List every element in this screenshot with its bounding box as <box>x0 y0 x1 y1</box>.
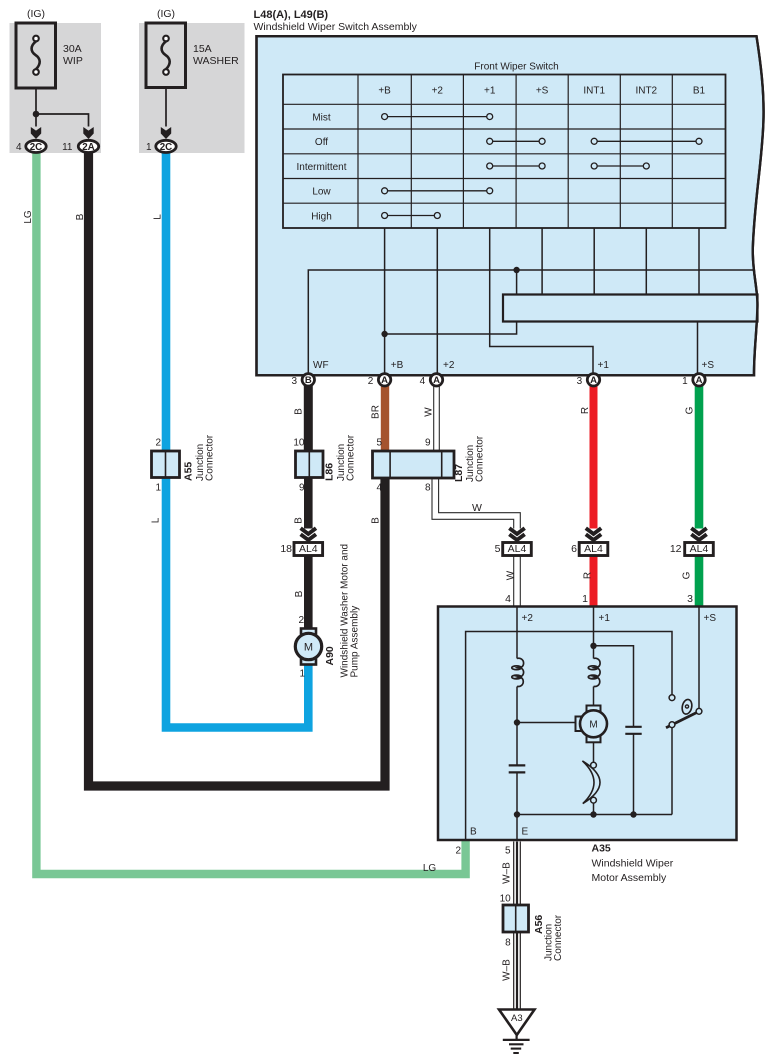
svg-text:Off: Off <box>315 137 328 148</box>
svg-text:Motor Assembly: Motor Assembly <box>592 872 667 884</box>
svg-text:10: 10 <box>293 438 305 449</box>
svg-text:2: 2 <box>368 376 374 387</box>
svg-text:3: 3 <box>291 376 297 387</box>
svg-text:AL4: AL4 <box>690 543 709 555</box>
svg-text:Pump Assembly: Pump Assembly <box>350 606 361 678</box>
svg-text:+1: +1 <box>484 86 496 97</box>
svg-text:+2: +2 <box>432 86 444 97</box>
svg-text:G: G <box>684 406 695 414</box>
svg-text:A55: A55 <box>183 462 195 481</box>
svg-text:W–B: W–B <box>502 959 513 981</box>
svg-text:18: 18 <box>280 543 292 555</box>
svg-text:1: 1 <box>155 483 161 494</box>
svg-text:WF: WF <box>313 360 329 371</box>
svg-text:2: 2 <box>155 438 161 449</box>
svg-text:2: 2 <box>298 615 304 626</box>
svg-text:8: 8 <box>425 483 431 494</box>
svg-text:A: A <box>696 375 703 386</box>
svg-text:AL4: AL4 <box>584 543 603 555</box>
svg-text:+S: +S <box>704 613 717 624</box>
svg-text:4: 4 <box>420 376 426 387</box>
svg-text:WIP: WIP <box>63 55 83 67</box>
svg-text:5: 5 <box>495 543 501 555</box>
svg-text:R: R <box>583 572 594 579</box>
svg-text:9: 9 <box>425 438 431 449</box>
svg-text:+S: +S <box>702 360 715 371</box>
svg-text:A: A <box>590 375 597 386</box>
svg-text:+S: +S <box>536 86 549 97</box>
svg-text:Connector: Connector <box>475 435 486 482</box>
svg-text:A90: A90 <box>324 646 336 665</box>
svg-text:W: W <box>424 407 435 417</box>
svg-text:12: 12 <box>670 543 682 555</box>
svg-text:INT2: INT2 <box>635 86 657 97</box>
svg-text:M: M <box>589 719 597 730</box>
svg-text:11: 11 <box>62 142 73 153</box>
svg-text:2: 2 <box>455 846 461 857</box>
svg-text:+1: +1 <box>599 613 611 624</box>
svg-text:L48(A), L49(B): L48(A), L49(B) <box>254 9 329 21</box>
svg-text:+1: +1 <box>598 360 610 371</box>
svg-text:L: L <box>153 214 164 220</box>
svg-text:A35: A35 <box>592 843 611 855</box>
svg-text:L: L <box>151 517 162 523</box>
svg-text:Connector: Connector <box>346 434 357 481</box>
svg-text:B: B <box>305 375 312 386</box>
svg-text:A: A <box>381 375 388 386</box>
svg-text:9: 9 <box>299 483 305 494</box>
svg-text:2C: 2C <box>160 142 173 153</box>
svg-text:15A: 15A <box>193 43 212 55</box>
svg-text:E: E <box>522 827 529 838</box>
svg-text:Mist: Mist <box>312 112 331 123</box>
svg-text:W–B: W–B <box>502 862 513 884</box>
svg-text:B: B <box>294 590 305 597</box>
svg-text:4: 4 <box>376 483 382 494</box>
svg-text:INT1: INT1 <box>583 86 605 97</box>
svg-text:Connector: Connector <box>205 434 216 481</box>
svg-text:M: M <box>304 641 313 653</box>
svg-text:High: High <box>311 211 332 222</box>
svg-text:LG: LG <box>423 863 437 874</box>
svg-text:(IG): (IG) <box>27 8 45 20</box>
svg-text:+2: +2 <box>522 613 534 624</box>
svg-text:B: B <box>294 408 305 415</box>
svg-text:+B: +B <box>391 360 404 371</box>
svg-text:8: 8 <box>505 938 511 949</box>
svg-text:A3: A3 <box>511 1013 523 1024</box>
svg-text:WASHER: WASHER <box>193 55 239 67</box>
svg-text:+2: +2 <box>443 360 455 371</box>
svg-text:Low: Low <box>312 187 331 198</box>
svg-text:1: 1 <box>582 593 588 605</box>
svg-text:5: 5 <box>505 846 511 857</box>
svg-text:3: 3 <box>687 593 693 605</box>
svg-text:W: W <box>472 502 482 514</box>
svg-text:10: 10 <box>500 894 512 905</box>
svg-text:3: 3 <box>577 376 583 387</box>
svg-text:LG: LG <box>23 210 34 224</box>
svg-text:2A: 2A <box>82 142 95 153</box>
svg-text:4: 4 <box>16 142 22 153</box>
svg-text:+B: +B <box>378 86 391 97</box>
svg-text:L86: L86 <box>324 463 336 481</box>
svg-text:1: 1 <box>146 142 152 153</box>
svg-text:B: B <box>294 517 305 524</box>
svg-text:Front Wiper Switch: Front Wiper Switch <box>474 62 558 73</box>
svg-text:W: W <box>506 570 517 580</box>
svg-text:A: A <box>433 375 440 386</box>
svg-text:4: 4 <box>505 593 511 605</box>
svg-text:B: B <box>370 517 381 524</box>
svg-text:AL4: AL4 <box>299 543 318 555</box>
svg-text:R: R <box>580 407 591 414</box>
svg-text:G: G <box>682 571 693 579</box>
svg-text:Intermittent: Intermittent <box>296 162 346 173</box>
svg-text:AL4: AL4 <box>508 543 527 555</box>
svg-text:1: 1 <box>682 376 688 387</box>
svg-text:(IG): (IG) <box>157 8 175 20</box>
svg-text:6: 6 <box>571 543 577 555</box>
svg-text:Windshield Wiper: Windshield Wiper <box>592 858 674 870</box>
svg-text:1: 1 <box>299 669 305 680</box>
svg-text:B1: B1 <box>693 86 706 97</box>
svg-text:L87: L87 <box>453 464 465 482</box>
svg-text:Windshield Wiper Switch Assemb: Windshield Wiper Switch Assembly <box>254 21 418 33</box>
svg-text:B: B <box>470 827 477 838</box>
svg-text:B: B <box>75 213 86 220</box>
svg-text:5: 5 <box>376 438 382 449</box>
svg-text:Connector: Connector <box>553 914 564 961</box>
svg-text:BR: BR <box>371 405 382 419</box>
svg-text:2C: 2C <box>30 142 43 153</box>
svg-text:30A: 30A <box>63 43 82 55</box>
